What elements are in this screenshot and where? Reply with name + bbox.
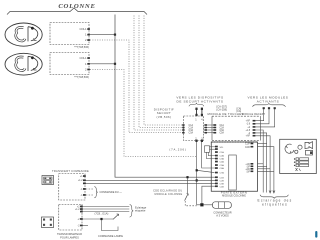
wire V2 bbox=[202, 186, 215, 203]
wire V3 bbox=[202, 142, 215, 168]
wire up a bbox=[196, 108, 198, 116]
wires X3 to module bbox=[204, 125, 214, 133]
svg-text:DE SECURT ACTIVANTS: DE SECURT ACTIVANTS bbox=[177, 99, 224, 103]
svg-text:C2A: C2A bbox=[220, 155, 225, 158]
svg-text:(7C8...G1A): (7C8...G1A) bbox=[95, 211, 109, 215]
X3 left pins bbox=[182, 124, 184, 126]
arrowheads down bbox=[269, 191, 271, 194]
svg-text:C2B: C2B bbox=[220, 180, 225, 182]
svg-text:C6A: C6A bbox=[220, 167, 225, 170]
overbrace 2 bbox=[253, 103, 286, 107]
svg-text:+1.8: +1.8 bbox=[245, 130, 250, 132]
svg-text:C1B: C1B bbox=[220, 177, 225, 179]
svg-text:(7C8,506): (7C8,506) bbox=[77, 75, 89, 79]
svg-text:(7C8,506): (7C8,506) bbox=[77, 45, 89, 49]
svg-text:-2/F: -2/F bbox=[246, 172, 251, 174]
wire bb low rows bbox=[258, 163, 264, 165]
big box left labels bbox=[220, 147, 225, 188]
dashed wire X1.2 bbox=[90, 40, 184, 133]
svg-text:MODULE RECEPT: MODULE RECEPT bbox=[242, 113, 266, 116]
connector X3 (dashed box mid) bbox=[184, 116, 204, 141]
X1 pin COL1 bbox=[87, 28, 90, 30]
module left pins bbox=[213, 124, 216, 126]
dashed wire bus b bbox=[139, 16, 184, 128]
under route bbox=[102, 219, 119, 231]
speaker sym bbox=[305, 142, 313, 149]
dashed wire bus a bbox=[134, 16, 184, 131]
svg-text:MODULE COLONNE: MODULE COLONNE bbox=[222, 194, 246, 197]
svg-text:C3B: C3B bbox=[220, 184, 225, 186]
svg-text:C7A: C7A bbox=[220, 172, 225, 175]
svg-text:C1A: C1A bbox=[220, 151, 225, 154]
overbrace 1 bbox=[189, 103, 204, 106]
big box PORTE bbox=[211, 142, 257, 191]
crescent bbox=[285, 144, 294, 153]
svg-text:(VB,506): (VB,506) bbox=[156, 115, 171, 119]
small circles bbox=[298, 145, 302, 149]
connector X1 (dashed box) bbox=[50, 23, 89, 45]
brace right small bbox=[94, 187, 97, 198]
connector X2 (dashed box) bbox=[50, 53, 89, 75]
svg-text:COLONNE: COLONNE bbox=[58, 3, 95, 10]
Y2 pins bbox=[75, 207, 80, 228]
svg-text:-A/F: -A/F bbox=[246, 120, 251, 123]
terminal strip bbox=[296, 158, 309, 167]
receiver pins and labels bbox=[245, 120, 250, 138]
junction lineA switch bbox=[186, 176, 188, 178]
main bus wire (solid) bbox=[115, 15, 215, 178]
brace 2 bbox=[130, 205, 134, 218]
Y2 stub bbox=[83, 225, 88, 227]
svg-text:C3A: C3A bbox=[220, 129, 225, 132]
svg-text:MODULE COLONNE: MODULE COLONNE bbox=[155, 193, 183, 196]
svg-text:(7A,206): (7A,206) bbox=[169, 148, 186, 152]
wire lineB bbox=[86, 179, 216, 181]
wire to switch2 bbox=[83, 218, 113, 220]
svg-text:COL1: COL1 bbox=[79, 27, 87, 31]
svg-text:-A/F: -A/F bbox=[246, 135, 251, 138]
wire down L2 bbox=[256, 133, 267, 193]
wire lineC bbox=[86, 182, 216, 184]
junction bbox=[100, 218, 102, 220]
Y1 pins bbox=[78, 176, 83, 197]
stub box bbox=[205, 146, 210, 153]
junction at bus bbox=[114, 34, 116, 36]
wire brace2 a bbox=[256, 108, 264, 121]
svg-text:COL1: COL1 bbox=[79, 56, 87, 60]
badge B1 (phone symbol ellipse) bbox=[5, 23, 42, 46]
svg-text:etiquettes: etiquettes bbox=[262, 202, 288, 206]
diagonal wire bbox=[197, 170, 215, 172]
svg-text:COMMANDE LAMPE: COMMANDE LAMPE bbox=[98, 234, 123, 238]
illustration box bbox=[280, 139, 317, 173]
svg-text:[CA-258]: [CA-258] bbox=[217, 108, 228, 112]
svg-text:C5A: C5A bbox=[220, 164, 225, 167]
three wires to brace bbox=[83, 206, 130, 208]
box Y1 (dashed) bbox=[59, 174, 85, 200]
big box left pins bbox=[215, 146, 218, 187]
wire X1.1 to bus bbox=[90, 34, 115, 36]
dashed wires to brace bbox=[86, 188, 94, 190]
wire X2.1 to bus bbox=[90, 63, 115, 65]
dashed wire bus c bbox=[144, 16, 184, 126]
stair wires bbox=[207, 152, 216, 158]
junction at bus bbox=[114, 63, 116, 65]
svg-text:C3A: C3A bbox=[189, 129, 194, 132]
svg-text:A 3 VOIES: A 3 VOIES bbox=[216, 213, 229, 217]
svg-text:POUR LAMPES: POUR LAMPES bbox=[60, 235, 79, 239]
wire brace2 b bbox=[256, 108, 270, 124]
svg-text:ACTIVANTS: ACTIVANTS bbox=[257, 99, 280, 103]
dashed wire X2.2 bbox=[90, 70, 197, 157]
big box right pins bbox=[245, 144, 251, 174]
connector sym2 bbox=[42, 217, 54, 228]
svg-text:TRANSFERT COMMANDE: TRANSFERT COMMANDE bbox=[52, 169, 89, 173]
svg-text:C4A: C4A bbox=[220, 161, 225, 164]
svg-text:[CA]: [CA] bbox=[237, 110, 242, 113]
wire up b bbox=[201, 108, 203, 116]
svg-text:etiquette: etiquette bbox=[135, 209, 146, 213]
bracket under title bbox=[7, 8, 147, 15]
switch S1 bbox=[187, 178, 189, 193]
pill connector bbox=[213, 202, 232, 209]
box Y2 (dashed) bbox=[59, 204, 82, 230]
wire bb top row1 bbox=[258, 143, 267, 145]
svg-text:C3A: C3A bbox=[220, 158, 225, 161]
svg-text:COMMANDE DU —: COMMANDE DU — bbox=[100, 191, 123, 194]
wire down L4 bbox=[258, 147, 274, 193]
underbrace bbox=[260, 195, 288, 199]
svg-text:C5A: C5A bbox=[189, 132, 194, 135]
switch S2 bbox=[113, 214, 119, 219]
junction dots V1 bbox=[196, 169, 198, 171]
connector sym1 bbox=[42, 176, 54, 185]
svg-text:+1.2: +1.2 bbox=[75, 209, 80, 211]
svg-text:+1.2: +1.2 bbox=[78, 180, 83, 182]
junction square big bbox=[200, 203, 203, 206]
svg-text:C5A: C5A bbox=[220, 132, 225, 135]
blue mark bbox=[315, 231, 317, 238]
scribble bbox=[296, 168, 301, 171]
wire down L1 bbox=[256, 130, 264, 193]
module box (wide, dashed top/bottom) bbox=[212, 116, 260, 140]
svg-text:C2/F: C2/F bbox=[245, 147, 251, 149]
wire down L3 bbox=[256, 136, 271, 193]
big box inner rect bbox=[229, 155, 237, 190]
svg-text:C1/F: C1/F bbox=[245, 144, 251, 146]
wire brace2 c bbox=[256, 108, 275, 127]
badge B2 (phone symbol ellipse) bbox=[5, 53, 42, 75]
svg-text:C4B: C4B bbox=[220, 186, 225, 188]
wire V1 bbox=[197, 142, 213, 205]
